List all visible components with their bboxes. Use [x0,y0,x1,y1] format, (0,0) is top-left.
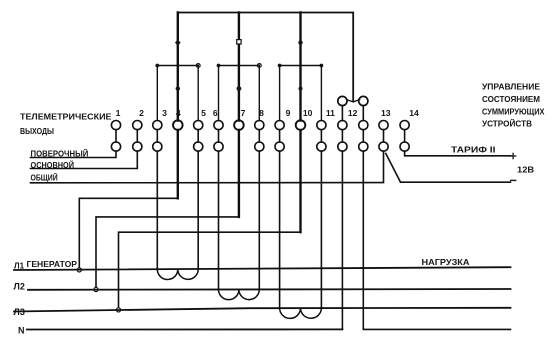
wire column terminal 5 lower to CT1 [197,151,199,269]
terminal 10 circle [296,120,306,130]
wire column terminal 7 lower thick to H3 [238,130,240,217]
wire column terminal 8 upper [258,66,260,121]
node dot rail2 left [217,64,221,68]
terminal 12 post A circles [338,121,347,152]
svg-text:12: 12 [348,108,358,118]
terminal 7 circle [234,120,244,130]
svg-text:ОБЩИЙ: ОБЩИЙ [31,172,58,183]
wire terminal 1 to poverochny line [31,151,117,157]
node diamond mark on column 4 [175,39,181,46]
svg-text:4: 4 [176,108,181,118]
terminal 12 link circle right [359,96,368,105]
svg-text:3: 3 [162,108,167,118]
svg-text:ПОВЕРОЧНЫЙ: ПОВЕРОЧНЫЙ [31,148,89,159]
wire column terminal 8 lower to CT2 [258,151,260,289]
node dot rail3 right [320,64,324,68]
wire column terminal 3 lower to CT1 [156,151,158,269]
wire link stubs terminal 12 [341,106,343,121]
svg-text:Л2: Л2 [14,281,25,291]
node dot on column 10 [299,87,303,91]
svg-text:10: 10 [303,108,313,118]
terminal 3 circles [153,121,162,152]
wire column terminal 9 upper [279,66,281,121]
svg-text:11: 11 [326,108,335,118]
wire column terminal 12 post A down to N line [341,151,343,329]
node open square mark on column 7 [237,40,241,44]
transformer CT3 secondary humps [280,308,322,319]
node dot rail1 right [196,64,200,68]
wire column terminal 11 upper [320,66,322,121]
svg-text:9: 9 [286,108,291,118]
wire bus L1 generator to load [14,267,511,270]
svg-text:ВЫХОДЫ: ВЫХОДЫ [20,126,54,136]
wire minus supply line 12V [401,181,511,183]
label plus [510,153,517,160]
svg-text:СОСТОЯНИЕМ: СОСТОЯНИЕМ [482,95,540,104]
wire H4 phase C voltage tap [119,232,301,308]
transformer CT2 secondary humps [219,289,260,299]
wire top rail joining voltage columns 4,7,10 to link above 12 [178,13,353,102]
wire column terminal 12 post B down and right to load N [363,151,510,329]
node dot rail3 left [278,64,282,68]
wire column terminal 6 upper [218,66,220,121]
svg-text:1: 1 [116,108,121,118]
terminal 9 circles [275,121,284,152]
wire column terminal 3 upper [156,66,158,121]
wire column terminal 9 lower to CT3 [279,151,281,308]
svg-text:8: 8 [259,108,264,118]
terminal 6 circles [214,121,223,152]
terminal 14 circles [400,121,409,152]
svg-text:14: 14 [409,108,419,118]
node dot rail2 right [257,64,261,68]
svg-text:ОСНОВНОЙ: ОСНОВНОЙ [31,159,75,170]
wire column terminal 6 lower to CT2 [218,151,220,289]
svg-text:ТАРИФ II: ТАРИФ II [451,145,496,155]
wire diagonal terminal 13 to minus [386,154,401,183]
wire terminal 14 to plus tariff line [405,151,511,156]
terminal 12 link circle left [338,96,347,105]
wire rail group 2 (terminals 6-8) [219,65,260,67]
node junction circle on L1 [77,268,81,272]
terminal 11 circles [317,121,326,152]
svg-text:Л3: Л3 [14,307,25,317]
node junction circle on L3 [116,308,120,312]
wire rail group 1 (terminals 3-5) [157,65,198,67]
terminal 2 circles [133,121,142,152]
svg-text:ТЕЛЕМЕТРИЧЕСКИЕ: ТЕЛЕМЕТРИЧЕСКИЕ [20,112,112,122]
transformer CT1 secondary humps [157,269,198,279]
wire terminal 2 to osnovnoy line [31,151,138,168]
svg-text:СУММИРУЮЩИХ: СУММИРУЮЩИХ [482,108,545,117]
wire column terminal 7 upper (thick voltage lead phase B) [238,13,240,121]
wire column terminal 10 upper (thick voltage lead phase C) [299,13,301,121]
wire column terminal 11 lower to CT3 [320,151,322,308]
node arrow V into link circles of terminal 12 [347,100,360,102]
terminal 12 post B circles [359,121,368,152]
wire column terminal 10 lower thick to H4 [299,130,301,232]
svg-text:УСТРОЙСТВ: УСТРОЙСТВ [482,120,532,129]
wire column terminal 4 upper (thick voltage lead phase A) [177,13,179,121]
terminal 8 circles [255,121,264,152]
wire column terminal 5 upper [197,66,199,121]
node dot on column 4 at rail crossing [176,86,180,90]
node dot rail1 left [155,64,159,68]
wire obshchiy line to terminal 13 [31,151,384,183]
label terminal numbers 1-14 [116,108,419,118]
terminal 5 circles [194,121,203,152]
wire bus L2 generator to load [28,288,511,291]
svg-text:НАГРУЗКА: НАГРУЗКА [422,257,470,267]
svg-text:13: 13 [381,108,391,118]
node dot on column 7 [237,86,242,91]
wire H3 phase B voltage tap [96,217,239,288]
wire column terminal 4 lower thick to H2 [177,130,179,198]
node dot mark on column 10 upper [298,40,302,44]
terminal 4 circle [173,120,183,130]
label minus [510,179,516,181]
svg-text:6: 6 [213,108,218,118]
terminal 1 circles [111,121,120,152]
wire rail group 3 (terminals 9-11) [280,65,322,67]
svg-text:Л1: Л1 [14,262,25,271]
wire bus L3 generator to load [14,308,511,312]
svg-text:7: 7 [241,108,246,118]
terminal 13 circles [379,121,388,152]
svg-text:12В: 12В [517,165,534,175]
svg-text:2: 2 [139,108,144,118]
svg-text:5: 5 [201,108,206,118]
svg-text:N: N [18,326,25,336]
wire bus N generator side [27,328,342,330]
svg-text:ГЕНЕРАТОР: ГЕНЕРАТОР [27,259,78,269]
svg-text:УПРАВЛЕНИЕ: УПРАВЛЕНИЕ [482,83,541,92]
wire H2 phase A voltage tap [79,198,178,268]
node junction circle on L2 [94,287,98,291]
